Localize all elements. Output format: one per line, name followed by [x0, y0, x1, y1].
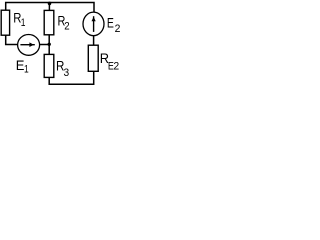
svg-text:2: 2 — [64, 20, 70, 33]
resistor RE2 — [88, 45, 98, 71]
wire R2 top stub — [48, 3, 50, 11]
label E2 — [107, 15, 120, 35]
wire top net: R1 top to node A — [6, 3, 50, 11]
svg-text:2: 2 — [115, 23, 121, 35]
wire bottom net: R3 bottom to RE2 bottom — [49, 71, 93, 84]
resistor R2 — [44, 10, 54, 34]
source E2 (current source, arrow up) — [83, 12, 104, 36]
node A junction dot — [48, 2, 52, 6]
wire R1 bottom to E1 left — [6, 35, 18, 44]
svg-text:2: 2 — [114, 60, 120, 73]
label E1 — [16, 57, 29, 75]
svg-text:E: E — [107, 15, 114, 31]
svg-text:3: 3 — [64, 66, 70, 79]
svg-text:1: 1 — [21, 17, 26, 29]
label R3 — [56, 58, 69, 79]
resistor R1 — [1, 10, 9, 35]
wire R2 bottom through node B to R3 top — [48, 35, 50, 55]
label R2 — [58, 13, 70, 33]
source E1 (current source, arrow right) — [18, 35, 40, 56]
wire E1 right to node B — [40, 44, 49, 46]
svg-text:E: E — [16, 57, 25, 73]
svg-text:1: 1 — [24, 63, 29, 75]
resistor R3 — [44, 54, 54, 77]
label R1 — [13, 10, 26, 30]
label RE2 — [100, 50, 120, 72]
node B junction dot — [48, 43, 51, 46]
wire top net: node A to E2 top — [49, 3, 94, 13]
wire E2 bottom to RE2 top — [93, 35, 95, 45]
